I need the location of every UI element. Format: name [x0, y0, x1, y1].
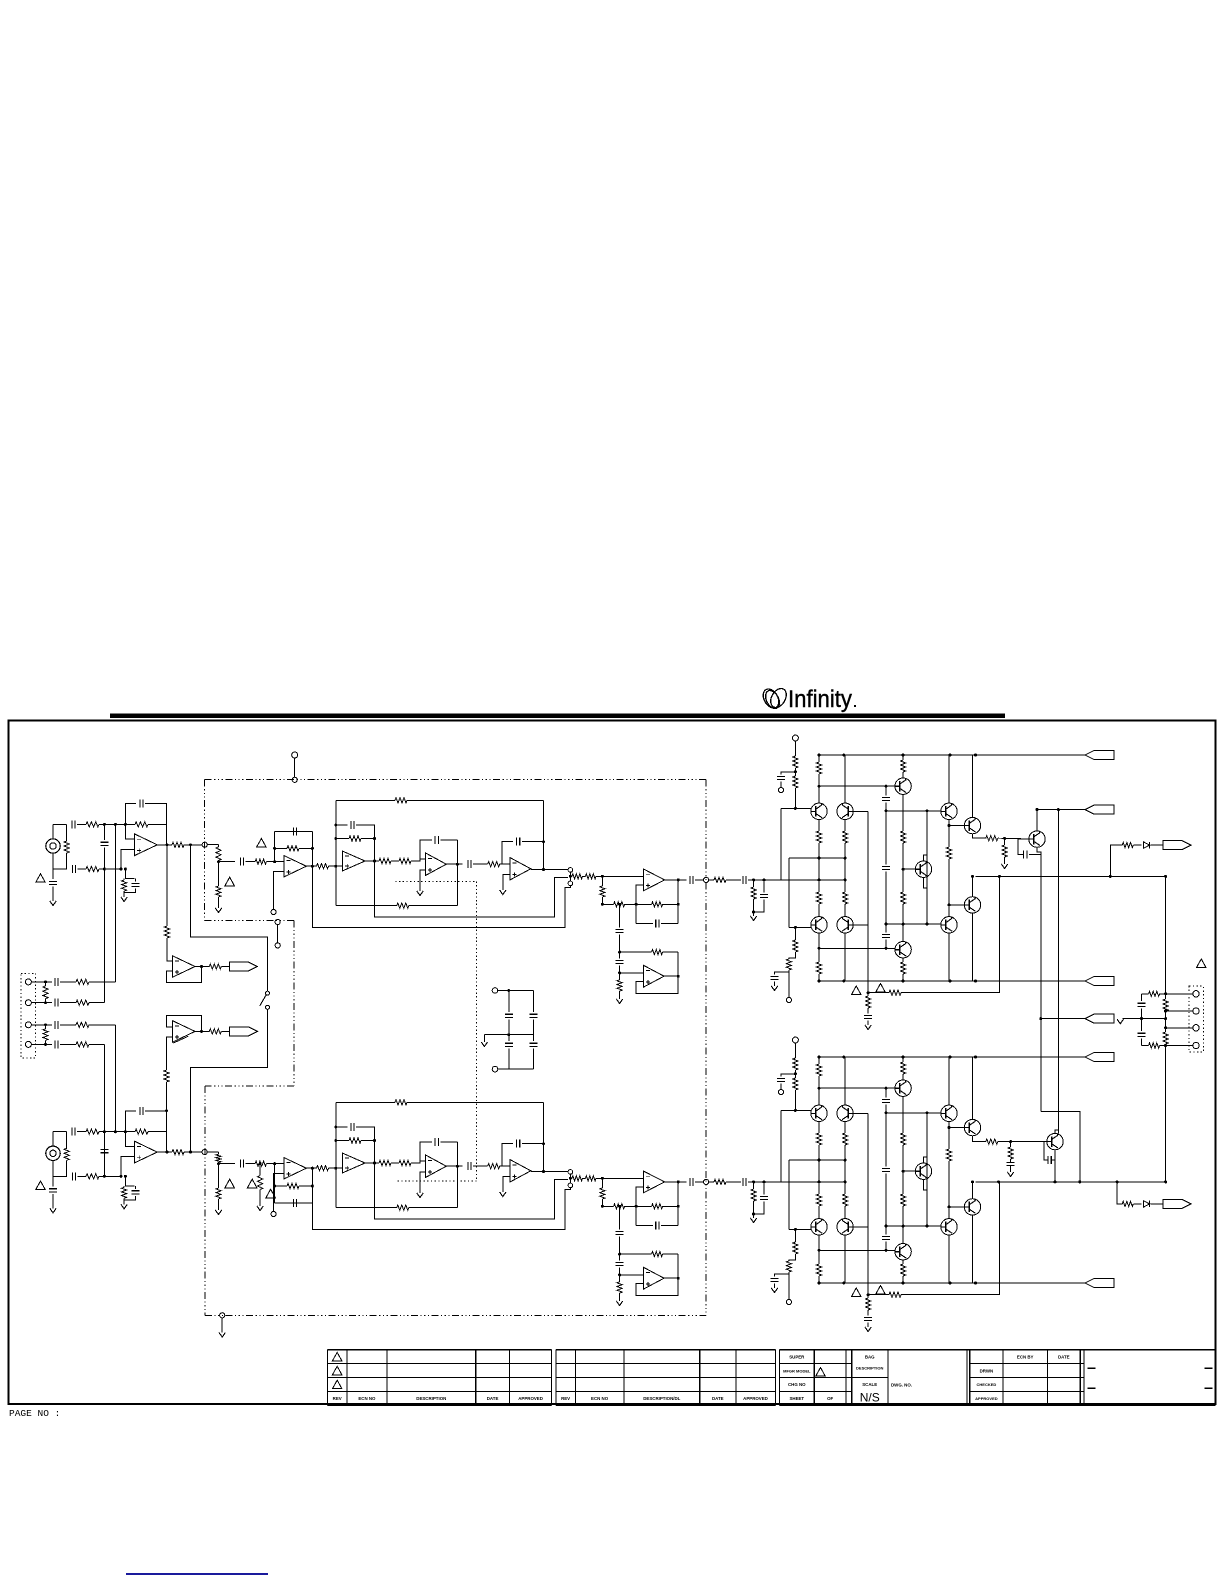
resistor R rec1	[209, 964, 221, 969]
junction (ch2)	[818, 1087, 821, 1090]
capacitor Cp2d	[771, 1278, 779, 1281]
wire QC base (ch1)	[789, 926, 811, 928]
wire (ch2)	[145, 1111, 166, 1152]
wire (ch1)	[664, 975, 678, 977]
wire bottom rail (ch1)	[820, 980, 1085, 982]
wire (ch2)	[52, 1132, 54, 1146]
wire bypass (ch1)	[375, 861, 568, 917]
capacitor Cp2g	[882, 1236, 890, 1239]
wire (ch1)	[124, 889, 135, 893]
wire (ch1)	[818, 774, 820, 803]
junction (ch2)	[971, 1180, 974, 1183]
resistor Rp2n	[901, 1133, 906, 1145]
capacitor C zobel2	[1138, 1033, 1146, 1036]
capacitor C1G feedback	[656, 920, 659, 928]
resistor R zobel3	[1163, 999, 1168, 1011]
resistor R in rec2	[164, 1070, 169, 1082]
wire shield tap	[277, 925, 279, 943]
wire (ch2)	[663, 1205, 679, 1207]
revision delta 3	[332, 1380, 342, 1389]
resistor Rp1a	[714, 877, 726, 882]
junction (ch2)	[334, 1126, 337, 1129]
wire (ch2)	[420, 1172, 426, 1193]
wire (ch2)	[123, 1186, 125, 1188]
junction (ch2)	[818, 1282, 821, 1285]
resistor Rp1o	[901, 892, 906, 904]
wire (ch2)	[709, 1181, 714, 1183]
wire (ch1)	[709, 879, 714, 881]
resistor Rp2d	[793, 1078, 798, 1090]
svg-text:N/S: N/S	[860, 1391, 880, 1405]
wire (ch1)	[774, 982, 776, 986]
terminal V+ psu	[492, 988, 498, 994]
wire (rec2)	[167, 1037, 173, 1070]
wire (ch1)	[636, 903, 652, 905]
junction (ch2)	[885, 1225, 888, 1228]
wire (ch2)	[391, 1162, 399, 1164]
wire zobel row2	[1166, 1010, 1193, 1012]
connector input jack J1	[46, 839, 60, 853]
node on shield (ch2)	[202, 1149, 207, 1154]
wire (ch1)	[52, 853, 54, 869]
resistor Rp1t emitter	[986, 836, 998, 841]
warning triangle (ch2)	[266, 1189, 276, 1198]
capacitor C psu4	[529, 1043, 537, 1046]
wire (ch2)	[456, 1142, 458, 1208]
junction (ch1)	[902, 754, 905, 757]
resistor R2K	[617, 1282, 622, 1293]
wire	[532, 1048, 534, 1069]
wire (ch1)	[924, 877, 928, 888]
wire feedback (rec1)	[166, 967, 201, 983]
resistor R1G	[572, 874, 583, 879]
wire feedback column (ch1)	[867, 811, 869, 996]
resistor shunt R1c	[64, 841, 69, 853]
wire (ch1)	[867, 1021, 869, 1025]
resistor R pin4	[76, 1042, 89, 1047]
svg-text:ECN NO: ECN NO	[358, 1396, 376, 1401]
junction (ch1)	[677, 975, 680, 978]
resistor R22g	[258, 1176, 263, 1190]
wire (ch1)	[99, 868, 121, 870]
resistor R2F	[488, 1164, 500, 1169]
wire output tap (ch2)	[1117, 1182, 1122, 1204]
junction (ch1)	[542, 840, 545, 843]
junction (ch1)	[373, 860, 376, 863]
wire (ch2)	[52, 1194, 54, 1208]
flag supply+ (ch1)	[1085, 751, 1114, 760]
terminal test point (ch2)	[271, 1211, 276, 1216]
wire (ch1)	[726, 879, 741, 881]
junction (ch1)	[885, 785, 888, 788]
svg-text:SCALE: SCALE	[862, 1382, 877, 1387]
ground (ch1)	[500, 890, 506, 895]
wire Q6 collector (ch2)	[948, 1057, 950, 1105]
junction (ch1)	[635, 903, 638, 906]
wire (ch2)	[902, 1276, 904, 1283]
warning triangle (ch2)	[247, 1179, 257, 1188]
svg-text:ECN BY: ECN BY	[1017, 1355, 1034, 1360]
resistor Rp2c	[793, 1058, 798, 1070]
flag record out 1	[229, 962, 257, 971]
resistor R2C feedback	[349, 1138, 361, 1143]
wire tail bar2 (ch2)	[764, 1181, 845, 1183]
warning triangle (ch2)	[225, 1179, 235, 1188]
wire output tap (ch1)	[1110, 845, 1122, 876]
wire (ch1)	[789, 952, 796, 959]
junction (ch1)	[1003, 837, 1006, 840]
transistor Q24	[895, 1244, 911, 1260]
wire output (rec1)	[195, 966, 209, 968]
ground (ch2)	[865, 1327, 871, 1332]
wire (ch1)	[902, 958, 904, 962]
wire (ch1)	[844, 820, 846, 832]
wire (ch2)	[788, 1272, 790, 1299]
transistor Q17 driver	[941, 917, 957, 933]
capacitor C psu2	[529, 1014, 537, 1017]
node	[292, 777, 297, 782]
wire shield gnd stub	[221, 1318, 223, 1333]
wire	[532, 991, 534, 1013]
connector pin 4	[25, 1041, 31, 1047]
wire Q6 collector (ch1)	[948, 755, 950, 803]
wire (ch2)	[780, 1110, 782, 1182]
resistor Rp2g	[843, 1133, 848, 1145]
wire (ch2)	[502, 1165, 510, 1167]
wire feedback (ch2)	[125, 1111, 136, 1132]
junction	[1140, 1017, 1143, 1020]
junction	[1116, 1180, 1119, 1183]
capacitor C2E servo	[616, 1231, 624, 1234]
junction	[44, 980, 47, 983]
junction (ch1)	[926, 923, 929, 926]
resistor R22b	[255, 1161, 266, 1166]
wire feedback (ch2)	[311, 1168, 313, 1203]
transistor Q28 output	[964, 1119, 980, 1135]
resistor Rp1e	[816, 762, 821, 774]
wire (ch2)	[219, 1163, 236, 1165]
wire	[508, 1048, 510, 1069]
wire (ch1)	[306, 865, 316, 867]
wire Q7 base row (ch1)	[886, 923, 941, 925]
wire (ch2)	[103, 1155, 105, 1177]
wire switch blade (rec2)	[173, 1036, 188, 1043]
resistor Rp1k	[793, 940, 798, 952]
wire feedback (ch1)	[311, 832, 313, 867]
wire	[60, 1043, 76, 1045]
wire (ch1)	[818, 843, 820, 858]
wire (ch2)	[409, 1207, 458, 1209]
wire QA base (ch1)	[781, 807, 811, 809]
junction (ch1)	[311, 865, 314, 868]
resistor R termination b	[43, 1029, 48, 1041]
wire	[1151, 1203, 1164, 1205]
capacitor C pin4	[55, 1040, 58, 1048]
wire (ch1)	[274, 872, 284, 910]
wire	[1141, 1019, 1143, 1032]
capacitor C2G feedback	[656, 1222, 659, 1230]
wire (ch2)	[748, 1181, 781, 1183]
wire (ch1)	[619, 991, 621, 999]
node on shield (ch1)	[202, 842, 207, 847]
wire (ch2)	[184, 1151, 202, 1153]
wire (ch1)	[844, 858, 846, 880]
junction (ch2)	[311, 1185, 314, 1188]
junction	[1078, 1180, 1081, 1183]
wire zobel row1	[1142, 993, 1149, 995]
wire	[1141, 1038, 1143, 1045]
wire	[1010, 1142, 1012, 1147]
wire (ch1)	[329, 865, 343, 867]
wire (ch1)	[973, 834, 986, 838]
resistor R21a	[216, 847, 221, 861]
connector speaker pin 1	[1193, 991, 1199, 997]
wire Q210 collector	[1055, 1130, 1058, 1133]
capacitor C1B feedback	[435, 836, 438, 844]
svg-text:SUPER: SUPER	[789, 1355, 805, 1360]
junction (ch2)	[569, 1177, 572, 1180]
wire (ch2)	[636, 1225, 653, 1227]
capacitor Cp1f	[882, 866, 890, 869]
capacitor Cp2b	[760, 1196, 768, 1199]
resistor R1B feedback outer2	[397, 903, 409, 908]
wire bypass (ch2)	[375, 1163, 568, 1219]
wire (ch2)	[500, 1165, 510, 1167]
junction (rec2)	[200, 1030, 203, 1033]
resistor Rp2e	[816, 1064, 821, 1076]
resistor R1E	[399, 858, 411, 863]
wire (ch2)	[663, 1253, 679, 1255]
transistor Q13	[895, 778, 911, 794]
wire feedback (ch1)	[274, 832, 276, 862]
resistor R1K	[617, 980, 622, 991]
wire (ch2)	[972, 1182, 974, 1199]
wire QB collector (ch1)	[844, 755, 846, 803]
wire (ch1)	[780, 782, 782, 788]
svg-text:CHECKED: CHECKED	[977, 1382, 997, 1387]
junction (ch2)	[867, 1293, 870, 1296]
junction (ch1)	[948, 824, 951, 827]
wire (ch1)	[135, 879, 137, 882]
capacitor C1f	[132, 883, 140, 886]
resistor Rp2l	[786, 1261, 791, 1272]
wire (ch2)	[207, 1151, 218, 1153]
junction (ch1)	[677, 903, 680, 906]
junction (ch1)	[818, 754, 821, 757]
wire QD base (ch1)	[853, 924, 868, 926]
wire (ch2)	[818, 1076, 820, 1105]
wire input bus D (pin4 to ch2 line2)	[103, 1044, 105, 1176]
wire (ch2)	[901, 1182, 999, 1295]
junction (rec2)	[165, 1109, 168, 1112]
wire (ch1)	[902, 772, 904, 778]
capacitor C1F servo	[616, 960, 624, 963]
junction (ch1)	[601, 875, 604, 878]
junction (ch2)	[373, 1139, 376, 1142]
svg-text:DESCRIPTION: DESCRIPTION	[856, 1366, 883, 1371]
op-amp U11 input buffer	[135, 834, 158, 856]
op-amp U1D	[643, 869, 664, 891]
wire (ch1)	[218, 845, 220, 847]
wire (ch1)	[103, 848, 105, 870]
wire bridge jog	[1041, 1111, 1080, 1182]
capacitor C22e feedback	[293, 1199, 296, 1207]
warning triangle (ch2)	[852, 1288, 862, 1297]
wire (ch2)	[125, 1176, 134, 1186]
wire QD base (ch2)	[853, 1226, 868, 1228]
junction	[1036, 808, 1039, 811]
wire feedback (ch2)	[636, 1187, 643, 1226]
wire Q210 emitter	[1054, 1150, 1056, 1182]
op-amp U1C	[510, 858, 531, 880]
capacitor C110	[1024, 851, 1027, 859]
wire (ch2)	[636, 1254, 678, 1296]
ground (ch2)	[215, 1210, 221, 1215]
transistor Q1A	[811, 803, 827, 819]
wire (ch1)	[531, 869, 568, 871]
wire Q6 base row (ch1)	[886, 810, 941, 812]
wire (ch2)	[625, 1205, 637, 1207]
junction (ch1)	[794, 807, 797, 810]
junction (ch2)	[166, 1151, 169, 1154]
wire Q110 emitter	[1037, 847, 1041, 1111]
wire (ch2)	[754, 1202, 764, 1214]
wire driver bridge column	[1057, 810, 1059, 1134]
terminal V supply (ch2)	[792, 1037, 798, 1043]
ground (ch1)	[50, 901, 56, 906]
wire (ch1)	[145, 804, 166, 845]
wire (ch1)	[754, 900, 764, 912]
resistor R1C feedback	[349, 836, 361, 841]
wire (ch2)	[123, 1198, 125, 1204]
wire (ch2)	[121, 1157, 135, 1177]
wire (ch2)	[619, 1268, 621, 1282]
wire (ch1)	[625, 903, 637, 905]
resistor Rp2t emitter (ch2)	[986, 1139, 998, 1144]
transistor Q2B	[837, 1105, 853, 1121]
wire (ch1)	[500, 863, 510, 865]
drawing border frame	[9, 721, 1216, 1405]
resistor R pin3	[76, 1022, 89, 1027]
junction	[1164, 1010, 1167, 1013]
junction (ch2)	[842, 1056, 845, 1059]
wire (ch2)	[780, 1084, 782, 1090]
junction (ch2)	[974, 1282, 977, 1285]
capacitor Cp2a	[743, 1178, 746, 1186]
wire	[89, 1024, 115, 1026]
junction	[44, 1001, 47, 1004]
resistor input R1a	[86, 822, 99, 827]
wire (ch1)	[218, 897, 220, 908]
capacitor C210b	[1048, 1156, 1051, 1164]
wire psu bottom	[498, 1068, 534, 1070]
capacitor C2c	[100, 1150, 108, 1153]
connector input jack J2	[46, 1146, 60, 1160]
wire (ch1)	[753, 899, 755, 916]
op-amp U2D	[643, 1171, 664, 1193]
wire pin row	[31, 1024, 52, 1026]
terminal V- psu	[492, 1066, 498, 1072]
ground (ch2)	[771, 1288, 777, 1293]
wire Q5 base (ch1)	[903, 868, 915, 870]
junction (ch2)	[974, 1056, 977, 1059]
junction (ch1)	[867, 991, 870, 994]
capacitor C21e feedback	[293, 828, 296, 836]
junction (ch1)	[618, 951, 621, 954]
wire outer loop top (ch2)	[336, 1101, 395, 1103]
wire (ch2)	[274, 1174, 284, 1212]
ground (ch2)	[257, 1206, 263, 1211]
wire (ch2)	[336, 1140, 349, 1142]
transistor Q1B	[837, 803, 853, 819]
op-amp U2C	[510, 1160, 531, 1182]
junction (ch2)	[902, 1056, 905, 1059]
wire (ch2)	[818, 1206, 820, 1219]
flag mid rail	[1085, 1014, 1114, 1023]
node on shield (ch1)	[704, 877, 709, 882]
junction (ch2)	[752, 1213, 755, 1216]
resistor R zobel2	[1149, 1043, 1160, 1048]
jumper link lower (ch1)	[568, 881, 573, 886]
wire (ch1)	[275, 861, 284, 863]
resistor Rp2b	[751, 1189, 756, 1201]
wire (ch1)	[125, 869, 134, 879]
junction (ch1)	[166, 843, 169, 846]
wire	[1133, 1203, 1141, 1205]
wire (ch1)	[677, 880, 679, 924]
wire (ch1)	[207, 844, 218, 846]
wire Q7 base row (ch2)	[886, 1225, 941, 1227]
junction (ch1)	[902, 868, 905, 871]
svg-text:DATE: DATE	[487, 1396, 499, 1401]
junction (ch1)	[456, 863, 459, 866]
junction (ch1)	[818, 947, 821, 950]
svg-text:APPROVED: APPROVED	[518, 1396, 543, 1401]
wire (ch1)	[473, 863, 488, 865]
resistor shunt R2c	[64, 1148, 69, 1160]
capacitor C2C	[468, 1162, 471, 1170]
wire (ch2)	[620, 1274, 644, 1276]
resistor R2E	[399, 1160, 411, 1165]
capacitor C22a	[240, 1160, 243, 1168]
resistor R2D	[379, 1160, 391, 1165]
wire (ch1)	[456, 840, 458, 906]
junction (ch1)	[103, 823, 106, 826]
wire (ch1)	[365, 860, 379, 862]
junction (ch1)	[974, 980, 977, 983]
warning triangle (ch1)	[852, 986, 862, 995]
junction	[507, 989, 510, 992]
svg-text:DWG. NO.: DWG. NO.	[891, 1383, 912, 1388]
jumper link upper (ch1)	[568, 868, 573, 873]
wire (ch1)	[77, 823, 86, 825]
wire (ch2)	[818, 1160, 820, 1182]
wire (ch2)	[902, 1145, 904, 1194]
wire (ch1)	[503, 874, 510, 890]
resistor Rp2j	[816, 1264, 821, 1276]
resistor R2H	[586, 1176, 597, 1181]
transistor Q16 driver	[941, 803, 957, 819]
wire (ch1)	[780, 808, 782, 880]
wire (ch1)	[902, 794, 904, 831]
resistor R2J	[614, 1204, 625, 1209]
junction (ch2)	[763, 1180, 766, 1183]
terminal bias (ch1)	[786, 997, 791, 1002]
junction (ch1)	[902, 980, 905, 983]
transistor Q23	[895, 1080, 911, 1096]
resistor Rp1h	[816, 892, 821, 904]
resistor feedback R1d	[135, 822, 148, 827]
